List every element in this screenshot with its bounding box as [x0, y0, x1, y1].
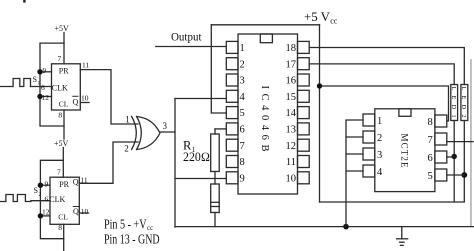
svg-text:11: 11 — [286, 157, 296, 168]
svg-text:6: 6 — [45, 195, 49, 204]
svg-text:2: 2 — [240, 59, 245, 70]
svg-text:8: 8 — [58, 223, 62, 232]
svg-text:12: 12 — [42, 208, 50, 217]
svg-text:9: 9 — [240, 173, 245, 184]
svg-text:+5 V: +5 V — [304, 9, 331, 24]
svg-text:6: 6 — [41, 83, 45, 92]
svg-text:5: 5 — [240, 108, 245, 119]
svg-text:CL: CL — [58, 213, 68, 222]
svg-text:3: 3 — [377, 150, 382, 161]
svg-text:cc: cc — [330, 17, 338, 26]
svg-text:2: 2 — [124, 143, 129, 153]
svg-text:6: 6 — [428, 153, 433, 164]
svg-text:MCT2E: MCT2E — [400, 134, 410, 169]
svg-text:6: 6 — [240, 125, 245, 136]
svg-text:9: 9 — [43, 66, 47, 75]
svg-text:9: 9 — [45, 180, 49, 189]
svg-text:Q: Q — [73, 207, 79, 216]
svg-text:Pin 13 - GND: Pin 13 - GND — [104, 231, 160, 246]
svg-text:3: 3 — [163, 121, 168, 131]
svg-text:2: 2 — [377, 133, 382, 144]
svg-text:IC4046B: IC4046B — [259, 86, 270, 152]
svg-text:1: 1 — [125, 114, 130, 124]
svg-text:3: 3 — [240, 76, 245, 87]
svg-text:11: 11 — [82, 61, 89, 70]
svg-text:Q: Q — [73, 177, 79, 186]
svg-text:CL: CL — [59, 100, 69, 109]
svg-text:+5V: +5V — [54, 139, 69, 148]
svg-text:14: 14 — [286, 108, 297, 119]
svg-text:8: 8 — [58, 110, 62, 119]
svg-text:13: 13 — [286, 125, 297, 136]
svg-text:11: 11 — [80, 176, 87, 185]
svg-text:Output: Output — [171, 29, 202, 43]
svg-text:PR: PR — [59, 66, 69, 75]
svg-text:+5V: +5V — [55, 24, 70, 33]
svg-text:18: 18 — [286, 43, 297, 54]
svg-text:8: 8 — [240, 157, 245, 168]
svg-text:1: 1 — [240, 43, 245, 54]
svg-text:7: 7 — [57, 168, 61, 177]
svg-text:CLK: CLK — [52, 84, 68, 93]
svg-text:7: 7 — [240, 141, 245, 152]
svg-text:S: S — [33, 75, 37, 84]
svg-text:7: 7 — [58, 54, 62, 63]
svg-text:8: 8 — [428, 117, 433, 128]
svg-text:12: 12 — [42, 93, 50, 102]
svg-text:4: 4 — [377, 167, 383, 178]
svg-text:10: 10 — [286, 173, 297, 184]
svg-text:17: 17 — [286, 59, 297, 70]
svg-text:220Ω: 220Ω — [183, 150, 210, 164]
svg-text:7: 7 — [428, 135, 433, 146]
svg-text:Q: Q — [73, 97, 79, 106]
svg-text:PR: PR — [59, 180, 69, 189]
svg-text:5: 5 — [428, 171, 433, 182]
svg-text:S: S — [34, 186, 38, 195]
svg-text:16: 16 — [286, 76, 297, 87]
svg-text:10: 10 — [81, 207, 89, 216]
svg-text:15: 15 — [286, 92, 297, 103]
svg-text:1: 1 — [377, 116, 382, 127]
svg-text:CLK: CLK — [49, 195, 65, 204]
svg-text:Pin 5 - +V: Pin 5 - +V — [104, 217, 147, 232]
svg-text:12: 12 — [286, 141, 297, 152]
svg-text:2: 2 — [39, 192, 42, 198]
svg-text:4: 4 — [240, 92, 246, 103]
svg-text:10: 10 — [81, 93, 89, 102]
